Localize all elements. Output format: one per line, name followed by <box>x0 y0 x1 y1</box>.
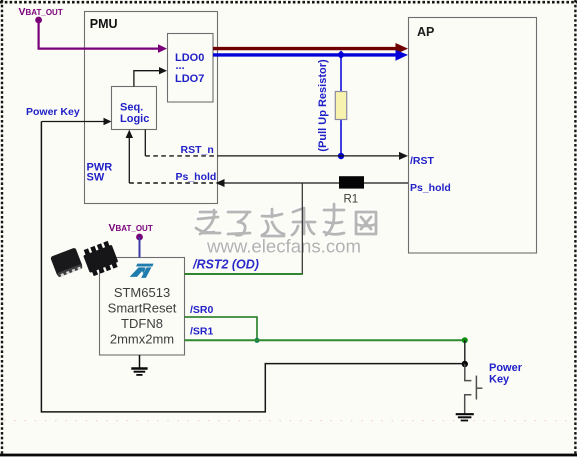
svg-text:Seq.: Seq. <box>120 102 143 114</box>
svg-text:www.elecfans.com: www.elecfans.com <box>206 236 361 257</box>
PMU box <box>85 12 218 204</box>
svg-text:PMU: PMU <box>90 17 118 31</box>
wire Ps_hold dashed inside PMU <box>129 182 213 184</box>
svg-text:/RST2 (OD): /RST2 (OD) <box>192 257 259 271</box>
svg-text:STM6513: STM6513 <box>114 285 170 300</box>
watermark www.elecfans.com <box>205 234 361 256</box>
switch SW1 (power key push button) <box>465 364 483 414</box>
Seq. Logic box <box>112 87 157 130</box>
wire pull-up vertical (blue) <box>340 56 342 156</box>
wire /SR1 (green) <box>185 339 465 341</box>
ground at switch <box>456 414 474 420</box>
wire power key return path <box>41 122 464 412</box>
svg-text:SmartReset: SmartReset <box>108 301 177 316</box>
svg-text:Logic: Logic <box>120 113 149 125</box>
svg-text:Ps_hold: Ps_hold <box>176 171 217 183</box>
svg-text:Ps_hold: Ps_hold <box>410 182 451 194</box>
svg-text:...: ... <box>176 60 185 72</box>
node junction SR0/SR1 <box>254 338 259 343</box>
svg-text:2mmx2mm: 2mmx2mm <box>110 332 174 347</box>
wire Ps_hold solid from AP <box>225 182 409 184</box>
page border bottom (solid) <box>0 454 577 457</box>
wire Ps_hold down to /RST2 <box>301 183 303 274</box>
wire /SR0 (green) <box>185 317 258 340</box>
page border top (dotted) <box>0 1 577 4</box>
resistor pull-up (yellow body) <box>335 92 346 120</box>
wire LDO to AP (thick dark red bus) <box>213 47 398 50</box>
wire Ps_hold vertical up to Seq.Logic <box>128 136 130 183</box>
ground below STM6513 <box>131 355 147 375</box>
wire RST_n vertical from Seq.Logic <box>144 130 146 156</box>
ST logo U1 <box>130 264 154 278</box>
wire Power Key to Seq.Logic <box>41 121 104 123</box>
wire RST_n dashed inside PMU <box>145 155 218 157</box>
svg-text:VBAT_OUT: VBAT_OUT <box>109 222 153 234</box>
svg-text:LDO7: LDO7 <box>175 73 204 85</box>
svg-text:R1: R1 <box>344 194 359 206</box>
chip package D1 (DFN, left) <box>50 247 83 277</box>
svg-text:SW: SW <box>87 172 105 184</box>
wire VBAT_OUT to STM6513 (purple) <box>139 237 141 258</box>
node junction switch (black dot) <box>462 361 468 367</box>
LDO box <box>168 34 214 103</box>
wire /RST2 (green) <box>185 273 303 275</box>
svg-text:Key: Key <box>489 374 510 386</box>
wire LDO to AP (thick blue bus) <box>213 53 398 56</box>
chip package D2 (TDFN with pins, right) <box>81 240 120 277</box>
svg-text:/SR1: /SR1 <box>190 325 214 337</box>
AP box <box>409 18 537 254</box>
wire SR1 node to switch node <box>464 340 466 364</box>
wire Seq.Logic to LDO <box>134 71 160 87</box>
watermark 电子发烧友网 <box>195 203 376 236</box>
node junction on RST line (blue dot) <box>338 153 344 159</box>
svg-text:AP: AP <box>417 25 434 39</box>
node junction at power key (green dot) <box>462 337 468 343</box>
svg-text:Power: Power <box>489 362 523 374</box>
wire RST_n to AP (solid) <box>218 155 400 157</box>
resistor R1 (black body) <box>339 176 364 188</box>
page border right (dotted) <box>574 0 576 454</box>
svg-text:VBAT_OUT: VBAT_OUT <box>19 6 63 18</box>
svg-text:TDFN8: TDFN8 <box>121 316 163 331</box>
faint pink dotted rule <box>4 420 572 422</box>
arrow Ps_hold into PMU (left) <box>216 179 225 187</box>
svg-text:Power Key: Power Key <box>26 106 80 118</box>
STM6513 box <box>100 258 185 356</box>
page border left (dotted) <box>1 0 3 454</box>
svg-text:RST_n: RST_n <box>181 144 214 156</box>
svg-text:/RST: /RST <box>410 155 435 167</box>
svg-text:(Pull Up Resistor): (Pull Up Resistor) <box>317 59 329 152</box>
node junction on blue bus <box>337 51 345 59</box>
wire VBAT_OUT to LDO (purple) <box>39 20 160 49</box>
svg-text:/SR0: /SR0 <box>190 304 214 316</box>
